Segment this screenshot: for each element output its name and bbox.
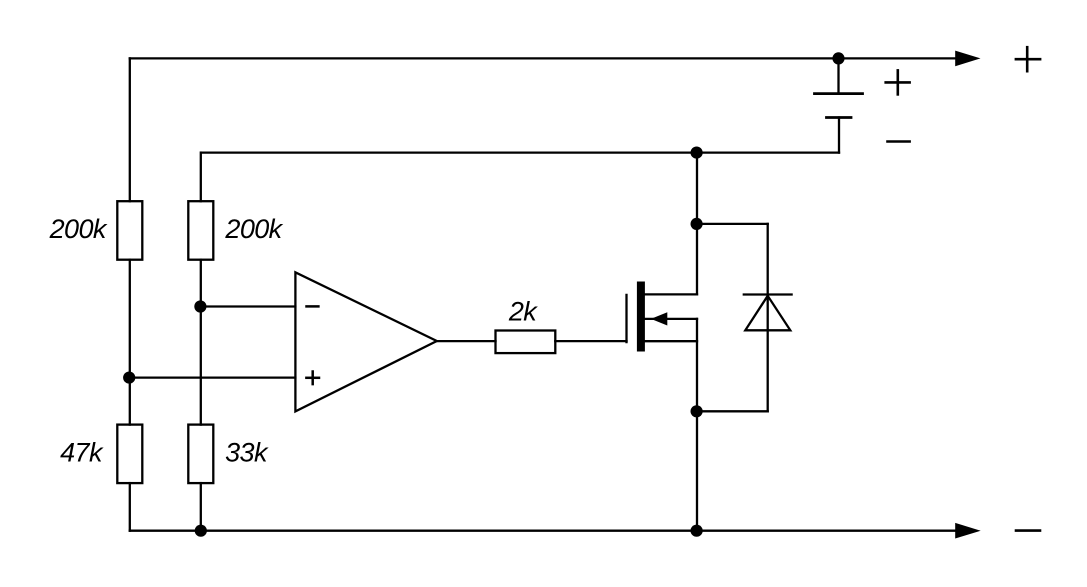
svg-text:33k: 33k [225, 437, 269, 467]
wire gate lead [555, 340, 626, 342]
wire bottom negative rail [130, 530, 956, 532]
wire op-amp output [437, 340, 496, 342]
wire drain vertical [696, 153, 698, 295]
wire column1 bottom [129, 483, 131, 531]
node column2 bottom rail junction [195, 525, 207, 537]
resistor R4 33k [188, 425, 213, 484]
wire second rail (battery minus) [201, 151, 839, 153]
wire column1 top [129, 58, 131, 201]
wire inverting input [201, 305, 296, 307]
svg-text:200k: 200k [224, 214, 283, 244]
svg-text:200k: 200k [49, 214, 108, 244]
resistor R5 2k [496, 331, 556, 354]
label + (battery) [886, 70, 910, 94]
svg-text:2k: 2k [508, 297, 538, 327]
battery B1 [815, 58, 863, 152]
node battery positive junction [832, 52, 844, 64]
wire source vertical [696, 319, 698, 531]
wire non-inverting input [130, 376, 296, 378]
label - (bottom right output) [1016, 529, 1040, 532]
node diode branch junction [691, 218, 703, 230]
wire diode branch top [697, 223, 768, 225]
resistor R2 200k [188, 201, 213, 260]
arrow top rail output [955, 51, 980, 67]
wire column2 middle [200, 260, 202, 425]
resistor R3 47k [117, 425, 142, 484]
wire top positive rail [130, 57, 956, 59]
label + (top right output) [1016, 47, 1040, 71]
node source bottom rail junction [691, 525, 703, 537]
diode D1 [744, 224, 792, 411]
wire column2 bottom [200, 483, 202, 531]
op-amp U1 [295, 272, 436, 411]
node non-inverting input [123, 372, 135, 384]
transistor Q1 MOSFET [627, 282, 698, 352]
wire column2 top [200, 153, 202, 202]
arrow bottom rail output [955, 523, 981, 539]
wire diode branch bottom [697, 410, 768, 412]
node inverting input [194, 300, 206, 312]
resistor R1 200k [117, 201, 142, 260]
node source diode junction [691, 405, 703, 417]
svg-text:47k: 47k [60, 437, 104, 467]
node drain rail junction [691, 147, 703, 159]
label - (battery) [888, 140, 910, 143]
wire column1 middle [129, 260, 131, 425]
